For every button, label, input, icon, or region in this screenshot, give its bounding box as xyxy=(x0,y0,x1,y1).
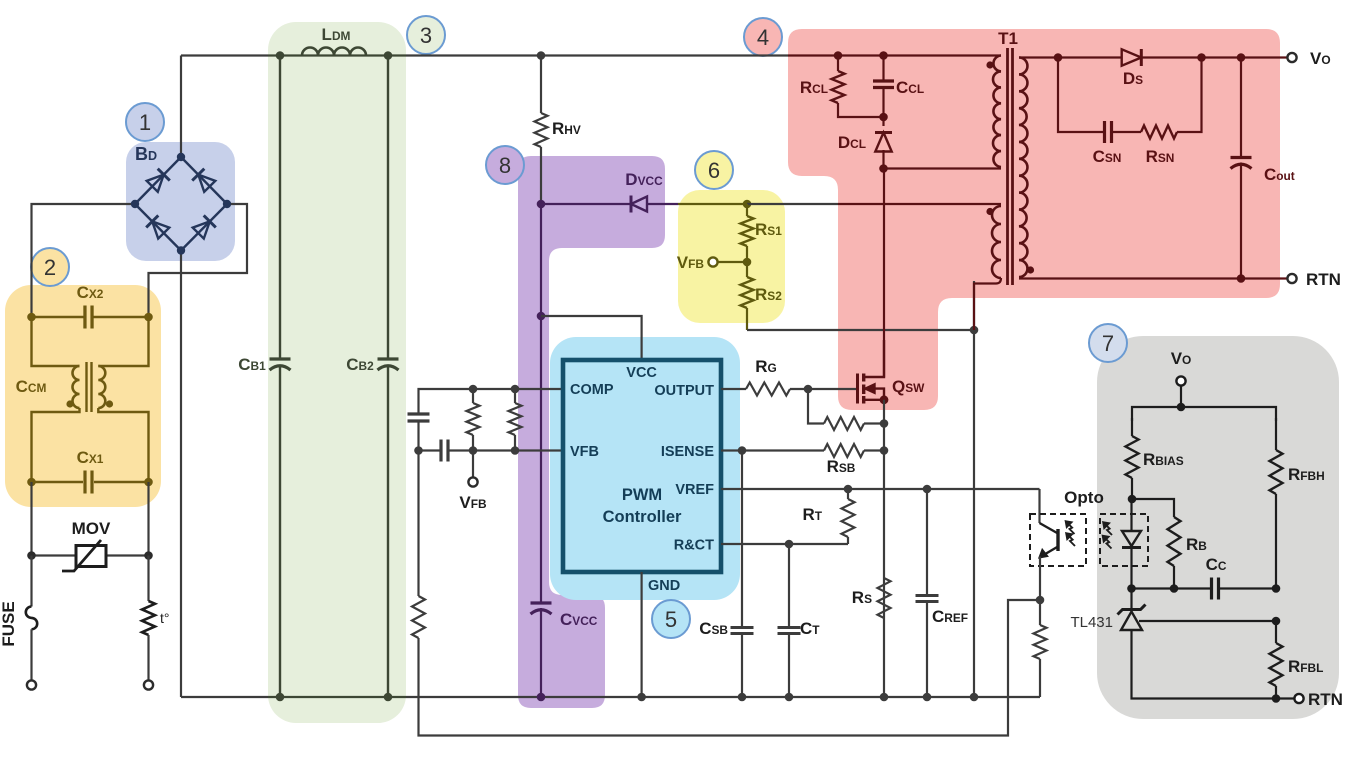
svg-text:RTN: RTN xyxy=(1306,270,1341,289)
capacitor CCL xyxy=(873,51,894,121)
highlight region 4 power stage (red) xyxy=(788,29,1280,410)
label MOV xyxy=(72,519,111,538)
marker circle 7 xyxy=(1089,324,1127,362)
label VFB comp xyxy=(459,493,487,512)
highlight region 1 bridge rectifier (blue) xyxy=(126,142,235,261)
label CREF xyxy=(932,607,968,626)
marker circle 5 xyxy=(652,600,690,638)
wire RTN row xyxy=(1019,277,1288,279)
terminal Vo xyxy=(1287,53,1296,62)
label PWM xyxy=(622,486,662,504)
capacitor CVCC xyxy=(531,603,552,701)
capacitor CC xyxy=(1212,578,1277,600)
mosfet QSW xyxy=(858,340,889,404)
wire MOV row xyxy=(27,551,153,560)
resistor RS1 xyxy=(741,204,754,262)
resistor RG xyxy=(721,383,858,396)
wire top rail xyxy=(181,54,1001,56)
resistor comp lower xyxy=(412,451,425,639)
wire lower feedback rail xyxy=(419,600,1041,736)
label Cout xyxy=(1264,165,1295,184)
marker circle 3 xyxy=(407,16,445,54)
svg-text:VREF: VREF xyxy=(675,482,714,498)
label VREF pin xyxy=(675,482,714,498)
shunt regulator TL431 xyxy=(1118,591,1281,703)
wire Vo row xyxy=(1019,53,1121,62)
resistor RSB xyxy=(721,444,888,457)
wire bridge top to rail xyxy=(180,56,182,158)
opto light arrows led side xyxy=(1103,523,1112,549)
label RCL xyxy=(800,78,828,97)
label Vo feedback xyxy=(1171,349,1192,368)
resistor RFBL xyxy=(1270,621,1283,699)
label QSW xyxy=(892,377,925,396)
svg-text:VCC: VCC xyxy=(626,365,657,381)
resistor RB xyxy=(1168,517,1181,593)
wire RCT row xyxy=(721,540,848,549)
inductor LDM xyxy=(276,48,393,60)
capacitor CB2 xyxy=(378,56,399,702)
label RG xyxy=(755,357,777,376)
highlight region 8 vcc supply (purple) xyxy=(518,156,665,708)
svg-text:GND: GND xyxy=(648,578,680,594)
capacitor CX2 xyxy=(27,305,153,329)
resistor RCL xyxy=(832,51,884,117)
label LDM xyxy=(322,25,351,44)
label RFBH xyxy=(1288,465,1325,484)
svg-text:PWM: PWM xyxy=(622,486,662,504)
label DCL xyxy=(838,133,866,152)
label CVCC xyxy=(560,610,598,629)
terminal VFB divider xyxy=(708,257,751,266)
label DVCC xyxy=(625,170,663,189)
resistor RBIAS xyxy=(1126,418,1139,503)
terminal VFB comp xyxy=(468,451,477,487)
label t deg xyxy=(160,610,170,626)
label RFBL xyxy=(1288,657,1323,676)
pwm controller box U1 xyxy=(563,360,721,572)
highlight region 3 bulk caps (green) xyxy=(268,22,406,723)
label Controller xyxy=(603,508,682,526)
transformer T1 primary xyxy=(986,56,1001,168)
capacitor CT xyxy=(778,544,801,701)
label T1 xyxy=(998,29,1018,48)
capacitor CSB xyxy=(731,451,754,702)
wire CX1 to MOV row right xyxy=(147,482,149,556)
label Opto xyxy=(1064,488,1104,507)
resistor RS2 xyxy=(741,262,754,330)
svg-text:OUTPUT: OUTPUT xyxy=(654,383,714,399)
svg-text:R&CT: R&CT xyxy=(674,538,714,554)
svg-text:TL431: TL431 xyxy=(1070,614,1113,631)
wire CX1 to MOV row left xyxy=(30,482,32,556)
wire choke to CX1 left xyxy=(32,408,80,482)
svg-text:3: 3 xyxy=(420,23,432,48)
label RSB xyxy=(827,457,856,476)
wire bridge left to EMI xyxy=(32,204,136,317)
terminal AC right xyxy=(144,680,153,689)
marker circle 1 xyxy=(126,103,164,141)
svg-text:COMP: COMP xyxy=(570,382,614,398)
transformer T1 aux xyxy=(974,206,1001,330)
label RHV xyxy=(552,119,581,138)
highlight region 7 feedback (gray) xyxy=(1097,336,1339,719)
capacitor CX1 xyxy=(27,470,153,494)
svg-text:Opto: Opto xyxy=(1064,488,1104,507)
svg-text:8: 8 xyxy=(499,153,511,178)
label VFB pin xyxy=(570,444,599,460)
label RSN xyxy=(1146,147,1175,166)
label RB xyxy=(1186,535,1207,554)
wire vcc pin branch xyxy=(541,316,642,360)
wire primary bottom xyxy=(884,167,1002,169)
label CX1 xyxy=(77,448,104,467)
diode DVCC xyxy=(541,196,678,213)
label CCL xyxy=(896,78,924,97)
wire CX2 to choke left xyxy=(32,317,80,366)
terminal Vo feedback xyxy=(1176,376,1185,411)
label CCM xyxy=(16,377,47,396)
highlight region 2 EMI filter (orange) xyxy=(5,285,161,507)
svg-text:MOV: MOV xyxy=(72,519,111,538)
wire GND pin xyxy=(637,572,646,701)
svg-text:VFB: VFB xyxy=(570,444,599,460)
snubber CSN RSN xyxy=(1058,58,1202,144)
label RTN xyxy=(1306,270,1341,289)
resistor RT xyxy=(842,489,855,544)
svg-text:Controller: Controller xyxy=(603,508,682,526)
transformer T1 core xyxy=(1008,48,1013,285)
compensation network xyxy=(408,385,564,462)
label FUSE xyxy=(0,601,18,646)
label DS xyxy=(1123,69,1143,88)
label CT xyxy=(800,619,820,638)
label TL431 xyxy=(1070,614,1113,631)
wire QSW source xyxy=(880,400,889,702)
label RT xyxy=(802,505,822,524)
wire DVCC to RS1 xyxy=(678,200,751,209)
wire feedback top bus xyxy=(1132,407,1276,421)
capacitor CB1 xyxy=(270,56,291,702)
svg-text:ISENSE: ISENSE xyxy=(661,444,715,460)
wire RS1 row to aux winding xyxy=(747,203,1001,205)
marker circle 2 xyxy=(31,248,69,286)
marker circle 4 xyxy=(744,18,782,56)
label VFB divider xyxy=(677,253,705,272)
label RBIAS xyxy=(1143,450,1184,469)
label CSN xyxy=(1093,147,1122,166)
diode DS xyxy=(1122,49,1288,66)
svg-text:1: 1 xyxy=(139,110,151,135)
label CB1 xyxy=(238,355,266,374)
terminal RTN xyxy=(1287,274,1296,283)
wire ground rail xyxy=(181,696,1040,698)
bridge rectifier BD xyxy=(131,153,231,255)
resistor RHV xyxy=(535,51,548,204)
label Vo xyxy=(1310,49,1331,68)
wire CX2 to choke right xyxy=(98,317,148,366)
wire opto emitter xyxy=(1036,557,1045,605)
svg-text:FUSE: FUSE xyxy=(0,601,18,646)
label COMP pin xyxy=(570,382,614,398)
resistor opto emitter xyxy=(1034,600,1047,697)
svg-text:4: 4 xyxy=(757,25,769,50)
wire TL431 ref xyxy=(1139,617,1280,626)
wire choke to CX1 right xyxy=(98,408,148,482)
highlight region 5 PWM controller (cyan) xyxy=(550,337,740,600)
label RTN feedback xyxy=(1308,690,1343,709)
thermistor t xyxy=(142,556,155,681)
svg-text:7: 7 xyxy=(1102,331,1114,356)
wire bridge right to EMI xyxy=(149,204,248,317)
svg-text:5: 5 xyxy=(665,607,677,632)
varistor MOV xyxy=(62,540,106,571)
diode DCL xyxy=(875,117,892,173)
svg-text:6: 6 xyxy=(708,158,720,183)
label RS xyxy=(852,588,872,607)
terminal AC left xyxy=(27,680,36,689)
highlight region 6 vcc divider (yellow) xyxy=(678,190,785,323)
label RS2 xyxy=(755,285,782,304)
wire VREF row xyxy=(721,485,1040,494)
capacitor Cout xyxy=(1231,58,1252,283)
opto led xyxy=(1100,499,1148,593)
wire opto collector xyxy=(1038,489,1040,523)
transformer T1 secondary xyxy=(1019,58,1034,278)
label CB2 xyxy=(346,355,374,374)
svg-text:2: 2 xyxy=(44,255,56,280)
wire CC row xyxy=(1132,584,1280,593)
common-mode choke CCM xyxy=(66,362,113,412)
terminal RTN feedback xyxy=(1276,694,1304,703)
label RS1 xyxy=(755,220,782,239)
fuse FUSE xyxy=(26,556,37,681)
svg-text:T1: T1 xyxy=(998,29,1018,48)
marker circle 8 xyxy=(486,146,524,184)
wire QSW drain xyxy=(883,169,885,378)
label RCT pin xyxy=(674,538,714,554)
label OUTPUT pin xyxy=(654,383,714,399)
resistor RFBH xyxy=(1270,418,1283,589)
capacitor CREF xyxy=(916,489,939,701)
opto light arrows transistor side xyxy=(1066,522,1075,547)
resistor gate pulldown xyxy=(808,389,888,430)
svg-text:RTN: RTN xyxy=(1308,690,1343,709)
label BD xyxy=(135,144,157,164)
svg-text:t°: t° xyxy=(160,610,170,626)
label GND pin xyxy=(648,578,680,594)
label VCC pin xyxy=(626,365,657,381)
label CSB xyxy=(699,619,728,638)
resistor RS xyxy=(878,578,891,618)
label CC xyxy=(1206,555,1227,574)
marker circle 6 xyxy=(695,151,733,189)
wire aux return vertical xyxy=(970,281,979,701)
label ISENSE pin xyxy=(661,444,715,460)
wire RB branch xyxy=(1132,499,1174,517)
wire bridge bottom to ground rail xyxy=(180,251,182,698)
wire vcc vertical xyxy=(537,200,546,603)
label CX2 xyxy=(77,283,104,302)
opto transistor xyxy=(1030,514,1086,566)
wire RS2 to aux return xyxy=(747,326,978,335)
